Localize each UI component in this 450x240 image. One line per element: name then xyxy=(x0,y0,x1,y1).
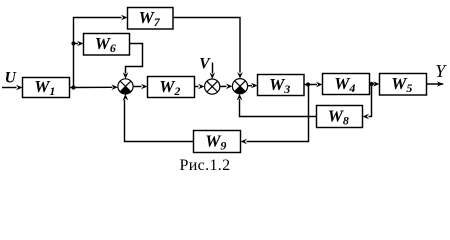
wire U input xyxy=(2,87,17,89)
summing junction S2 xyxy=(205,79,220,94)
arrowhead into W4 xyxy=(316,82,323,88)
block W4 xyxy=(323,74,370,95)
wire tap to W6 xyxy=(74,43,79,45)
summing junction S1 xyxy=(118,79,133,94)
wire W8 output to S3 bottom xyxy=(240,99,317,117)
wire W5 to Y output xyxy=(427,83,444,85)
wire S1 to W2 xyxy=(133,86,141,88)
block W1 xyxy=(23,78,70,98)
node after W1 xyxy=(71,85,75,89)
arrowhead into W8 right side xyxy=(363,114,370,120)
S1 filled bottom quadrant xyxy=(120,86,131,94)
node tap to W6 xyxy=(71,41,75,45)
S3 cross xyxy=(235,81,246,92)
wire W1 to summing junction S1 xyxy=(70,86,113,88)
block W2 xyxy=(148,77,195,98)
wire W3 to W4 xyxy=(304,84,317,86)
wire node after W4 down to W8 input xyxy=(369,84,372,117)
node after W3 xyxy=(306,82,310,86)
arrowhead into W6 xyxy=(77,41,84,47)
arrowhead into S1 top xyxy=(123,72,129,79)
wire S2 to S3 xyxy=(220,85,227,87)
block W3 xyxy=(258,75,305,96)
wire W6 output to S1 top xyxy=(126,44,143,74)
arrowhead into W1 xyxy=(16,85,23,91)
S1 cross xyxy=(120,81,131,92)
block W6 xyxy=(84,34,130,56)
block W9 xyxy=(194,131,241,153)
arrowhead into S2 top (V) xyxy=(210,73,216,80)
arrowhead into W3 xyxy=(251,83,258,89)
arrowhead into W2 xyxy=(141,84,148,90)
wire V input xyxy=(212,63,214,74)
wire W4 to W5 xyxy=(370,83,375,85)
arrowhead into W9 right side xyxy=(241,139,248,145)
arrowhead into S1 bottom xyxy=(123,94,129,101)
wire W7 output to S3 top xyxy=(173,18,240,73)
arrowhead into S3 bottom xyxy=(237,94,243,101)
node after W4 xyxy=(369,82,373,86)
wire W2 to S2 xyxy=(195,86,199,88)
svg-text:Рис.1.2: Рис.1.2 xyxy=(180,157,231,174)
wire S3 to W3 xyxy=(248,85,252,87)
S2 cross xyxy=(207,81,218,92)
svg-text:U: U xyxy=(5,69,17,86)
arrowhead into W7 xyxy=(121,15,128,21)
svg-text:V: V xyxy=(199,56,211,73)
block W5 xyxy=(380,74,427,96)
arrowhead Y output xyxy=(437,81,444,87)
arrowhead into S3 top xyxy=(237,72,243,79)
arrowhead into S1 left xyxy=(111,84,118,90)
wire node after W3 down to W9 input xyxy=(247,85,309,142)
arrowhead into S3 left xyxy=(226,84,233,90)
arrowhead into S2 left xyxy=(198,84,205,90)
arrowhead into W5 xyxy=(373,81,380,87)
summing junction S3 xyxy=(232,79,247,94)
S3 filled bottom quadrant xyxy=(235,86,246,94)
block W7 xyxy=(128,8,174,30)
wire trunk vertical up to W7 input xyxy=(74,18,122,88)
block W8 xyxy=(317,106,363,128)
wire W9 output to S1 bottom xyxy=(125,100,194,142)
